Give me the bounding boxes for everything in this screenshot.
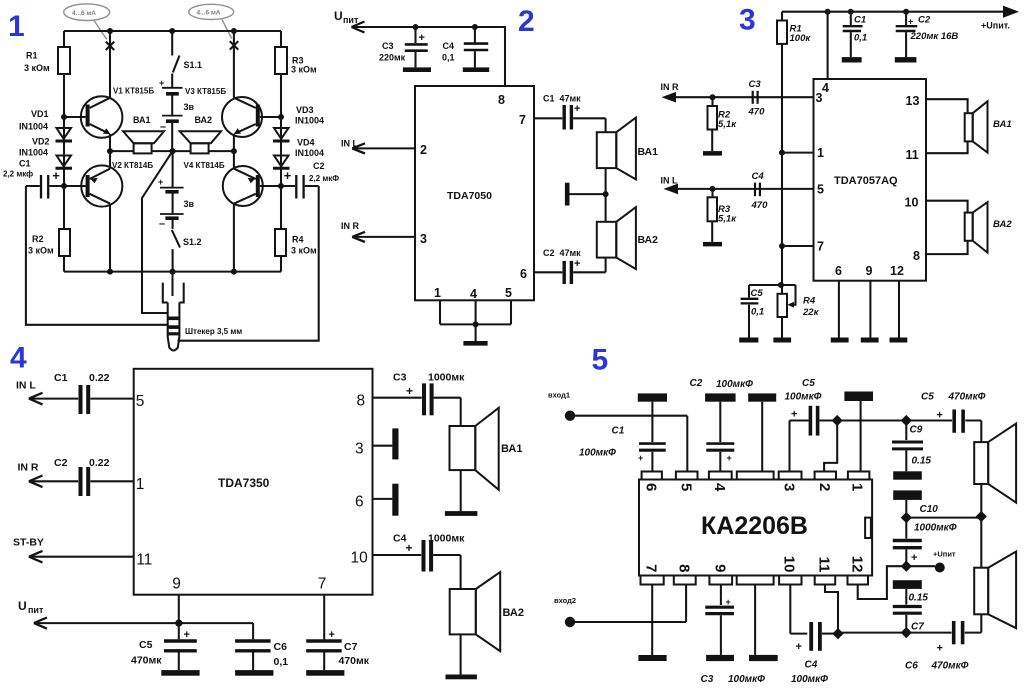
bottom pins 6 9 12 wires xyxy=(839,281,899,338)
wire from speaker node to jack ring xyxy=(142,151,173,313)
svg-text:+: + xyxy=(727,453,732,463)
svg-text:пит: пит xyxy=(28,605,44,615)
junction dots bottom rail xyxy=(107,269,237,275)
svg-text:11: 11 xyxy=(906,148,919,162)
svg-text:ST-BY: ST-BY xyxy=(13,537,44,549)
capacitor C5 0.1 xyxy=(741,285,759,338)
speaker BA2 xyxy=(965,202,988,252)
svg-text:C3: C3 xyxy=(701,674,714,685)
junction dots supply xyxy=(413,24,478,30)
svg-text:10: 10 xyxy=(781,556,798,573)
svg-text:10: 10 xyxy=(905,196,919,210)
svg-text:C2: C2 xyxy=(54,457,68,469)
svg-text:3 кОм: 3 кОм xyxy=(291,246,317,256)
C4 ground bar xyxy=(463,67,489,72)
svg-text:100мкФ: 100мкФ xyxy=(579,448,616,459)
svg-text:+: + xyxy=(158,177,163,187)
IN R junction dot xyxy=(710,94,716,100)
capacitor C8 470uF output top xyxy=(906,410,981,433)
svg-text:U: U xyxy=(334,9,343,23)
capacitor C2 100uF xyxy=(706,402,734,472)
svg-text:+: + xyxy=(184,629,190,641)
svg-text:TDA7050: TDA7050 xyxy=(447,190,492,202)
resistor R1 xyxy=(58,47,70,74)
diode VD1 xyxy=(56,128,73,141)
capacitor C5 100uF xyxy=(785,378,838,472)
svg-text:1: 1 xyxy=(136,476,145,493)
capacitor C2 2.2uF xyxy=(281,168,319,199)
top wide pin box xyxy=(737,472,774,480)
svg-text:3: 3 xyxy=(355,441,364,458)
pin 9 wire and Upit arrow xyxy=(18,595,253,629)
R4 ground bar xyxy=(773,338,791,343)
svg-text:+: + xyxy=(159,78,164,88)
pin 1 wire xyxy=(779,150,814,156)
capacitor C2 220uF 16V xyxy=(896,12,918,57)
svg-text:пит: пит xyxy=(343,15,359,25)
capacitor C9 0.15 xyxy=(892,421,923,472)
svg-text:S1.2: S1.2 xyxy=(183,237,202,247)
pin 12 box xyxy=(848,576,869,585)
svg-text:S1.1: S1.1 xyxy=(184,60,203,70)
pin 4 supply wire xyxy=(827,12,829,79)
svg-text:+: + xyxy=(638,453,643,463)
capacitor C6 470uF xyxy=(906,621,981,655)
C2 ground bar xyxy=(895,57,917,62)
svg-text:+: + xyxy=(52,168,60,183)
svg-text:C1: C1 xyxy=(54,372,68,384)
transistor V1 KT815B xyxy=(64,96,122,138)
svg-text:4...6 мА: 4...6 мА xyxy=(197,10,221,17)
transistor V3 KT815B xyxy=(222,97,281,137)
V2 emitter/collector wires xyxy=(109,151,111,272)
bottom wide pin ground xyxy=(749,585,778,662)
svg-text:13: 13 xyxy=(906,94,920,108)
capacitor C2 0.22 xyxy=(81,467,134,496)
svg-text:+: + xyxy=(908,17,913,27)
speaker BA1 xyxy=(110,131,173,153)
svg-text:C4: C4 xyxy=(752,171,765,182)
svg-text:+: + xyxy=(574,258,580,270)
supply node junction xyxy=(901,512,982,523)
capacitor C4 0.1 xyxy=(464,27,488,67)
capacitor C6 0.1 xyxy=(235,623,271,670)
svg-text:9: 9 xyxy=(172,576,181,593)
vhod2 input terminal xyxy=(554,585,686,628)
current break cross left xyxy=(106,42,114,50)
battery GB2 (two 3v cells) xyxy=(158,151,184,230)
svg-text:C2: C2 xyxy=(543,248,555,258)
current break cross right xyxy=(230,41,238,49)
C7 ground bar xyxy=(306,670,344,676)
supply ground bar xyxy=(893,490,922,517)
junction dot V3 base xyxy=(278,114,284,120)
pin 3 box xyxy=(779,472,802,480)
svg-text:вход1: вход1 xyxy=(548,391,570,400)
svg-text:R4: R4 xyxy=(292,235,304,245)
svg-text:0.22: 0.22 xyxy=(89,457,110,469)
ripple node junction xyxy=(749,282,796,288)
diode VD2 xyxy=(56,156,73,169)
svg-text:C6: C6 xyxy=(905,661,918,672)
svg-text:+: + xyxy=(796,641,802,653)
svg-text:6: 6 xyxy=(355,494,364,511)
junction dot V4 base / C2 xyxy=(278,183,284,189)
svg-text:0.22: 0.22 xyxy=(89,372,110,384)
vhod1 input terminal xyxy=(548,391,687,472)
C6 ground bar xyxy=(235,670,273,676)
pin 9 ground bar xyxy=(861,338,879,343)
pin 7 box xyxy=(641,576,664,585)
V3 collector wire xyxy=(233,31,235,151)
svg-text:3: 3 xyxy=(816,91,823,105)
svg-text:5,1к: 5,1к xyxy=(718,214,737,225)
svg-text:C1: C1 xyxy=(854,15,866,26)
svg-text:C5: C5 xyxy=(921,392,934,403)
capacitor C7 470uF xyxy=(306,595,342,670)
svg-text:+: + xyxy=(791,409,797,421)
svg-text:R2: R2 xyxy=(32,234,44,244)
C2 top ground bar xyxy=(705,393,736,401)
svg-text:5: 5 xyxy=(677,483,694,491)
svg-text:C5: C5 xyxy=(139,639,153,651)
svg-text:5: 5 xyxy=(592,344,609,377)
svg-text:V4 КТ814Б: V4 КТ814Б xyxy=(184,161,225,170)
svg-text:ВА2: ВА2 xyxy=(195,115,213,125)
resistor R4 xyxy=(275,229,286,256)
svg-text:1000мк: 1000мк xyxy=(428,533,465,545)
transistor V2 KT814B xyxy=(64,165,122,206)
svg-text:8: 8 xyxy=(357,393,366,410)
svg-text:1000мк: 1000мк xyxy=(428,372,465,384)
V4 wires xyxy=(233,151,235,272)
switch S1.2 xyxy=(172,230,180,272)
supply wire to pin 8 xyxy=(352,27,506,86)
svg-text:1: 1 xyxy=(848,483,865,491)
3.5mm jack plug xyxy=(163,283,184,351)
svg-text:4: 4 xyxy=(711,483,728,492)
R3 ground bar xyxy=(703,242,722,247)
right outer wire C2 to jack tip xyxy=(178,186,319,341)
left rail wire xyxy=(63,31,65,272)
resistor R2 xyxy=(59,229,70,256)
junction dots on top rail xyxy=(107,28,237,34)
svg-text:4: 4 xyxy=(10,342,27,375)
bottom wide pin box xyxy=(737,576,774,585)
pin 6 stub bar xyxy=(373,484,399,516)
IC TDA7057AQ xyxy=(814,79,927,281)
svg-text:+: + xyxy=(284,168,292,183)
svg-text:С2: С2 xyxy=(313,161,325,171)
pin 2 box xyxy=(815,472,836,480)
svg-text:100мкФ: 100мкФ xyxy=(785,391,822,402)
svg-text:C1: C1 xyxy=(612,426,625,437)
capacitor C3 1000uF xyxy=(373,383,461,415)
svg-text:11: 11 xyxy=(136,552,152,569)
svg-text:ВА2: ВА2 xyxy=(503,607,524,619)
battery GB1 (two 3v cells) xyxy=(159,78,183,151)
svg-text:100мкФ: 100мкФ xyxy=(791,674,828,685)
svg-text:ВА1: ВА1 xyxy=(133,115,151,125)
capacitor C10 1000uF xyxy=(893,518,922,567)
svg-text:9: 9 xyxy=(866,264,873,278)
BA2 ground bar xyxy=(446,675,477,680)
resistor R3 xyxy=(275,47,287,74)
svg-text:TDA7057AQ: TDA7057AQ xyxy=(834,175,898,187)
svg-text:ВА1: ВА1 xyxy=(501,443,522,455)
svg-text:470: 470 xyxy=(751,200,769,211)
speaker BA2 xyxy=(974,517,1016,633)
svg-text:ВА2: ВА2 xyxy=(638,234,659,246)
V1 collector wire xyxy=(109,31,111,151)
resistor R3 5.1k xyxy=(708,189,718,242)
svg-text:3 кОм: 3 кОм xyxy=(28,246,54,256)
svg-text:C3: C3 xyxy=(749,79,762,90)
svg-text:100мкФ: 100мкФ xyxy=(728,674,765,685)
svg-text:2: 2 xyxy=(420,143,427,157)
pin 3 stub bar xyxy=(373,428,399,459)
pin 11 box xyxy=(815,576,836,585)
left outer wire C1 to jack xyxy=(26,186,168,325)
svg-text:C5: C5 xyxy=(751,288,764,299)
speaker BA2 xyxy=(173,131,234,153)
svg-text:V1 КТ815Б: V1 КТ815Б xyxy=(113,87,154,96)
trimmer R4 22k xyxy=(778,285,796,338)
pin 7 ground wire xyxy=(638,585,666,662)
svg-text:8: 8 xyxy=(676,564,693,572)
output node junction xyxy=(832,415,907,426)
IN L input arrow xyxy=(16,380,78,405)
pin 9 box xyxy=(709,576,732,585)
svg-text:+Uпит: +Uпит xyxy=(933,550,956,559)
svg-text:8: 8 xyxy=(498,93,505,107)
Upit label xyxy=(334,9,359,25)
svg-text:470мк: 470мк xyxy=(131,655,162,667)
svg-text:10: 10 xyxy=(351,550,369,567)
svg-text:IN1004: IN1004 xyxy=(19,148,48,158)
svg-text:C1: C1 xyxy=(543,94,555,104)
speaker BA1 wires pins 13 11 xyxy=(926,99,968,153)
svg-text:TDA7350: TDA7350 xyxy=(218,476,270,490)
C1 ground bar xyxy=(842,57,862,62)
capacitor C1 0.1 xyxy=(843,12,863,57)
svg-text:7: 7 xyxy=(817,240,824,254)
svg-text:+: + xyxy=(406,541,413,555)
svg-text:V3 КТ815Б: V3 КТ815Б xyxy=(185,87,226,96)
pin 2 jog wire xyxy=(824,421,837,472)
svg-text:4: 4 xyxy=(470,287,477,301)
svg-text:–: – xyxy=(160,121,166,133)
resistor R1 100k xyxy=(777,12,787,285)
svg-text:220мк 16В: 220мк 16В xyxy=(910,31,959,42)
IN L junction dot xyxy=(710,186,716,192)
svg-text:C4: C4 xyxy=(443,41,455,51)
+Upit node junction xyxy=(901,561,912,572)
svg-text:+: + xyxy=(937,410,943,422)
svg-text:+: + xyxy=(726,597,731,607)
svg-text:2,2 мкФ: 2,2 мкФ xyxy=(309,174,339,183)
speaker BA2 xyxy=(450,555,501,675)
wire center column to jack xyxy=(171,272,173,296)
svg-text:VD4: VD4 xyxy=(297,138,315,148)
svg-text:+: + xyxy=(937,643,943,655)
svg-text:11: 11 xyxy=(816,557,833,573)
svg-text:IN1004: IN1004 xyxy=(295,148,324,158)
speaker line junction dots xyxy=(107,148,237,154)
svg-text:С1: С1 xyxy=(19,159,31,169)
IC TDA7350 xyxy=(134,369,373,595)
center ground T xyxy=(567,183,608,206)
svg-text:3: 3 xyxy=(420,232,427,246)
svg-text:3: 3 xyxy=(781,483,798,491)
capacitor C1 2.2uF xyxy=(26,168,64,199)
svg-text:3 кОм: 3 кОм xyxy=(291,65,317,75)
capacitor C4 1000uF xyxy=(373,540,461,572)
svg-text:5,1к: 5,1к xyxy=(718,119,737,130)
svg-text:3: 3 xyxy=(739,4,756,37)
capacitor C2 47uF xyxy=(534,258,606,284)
svg-text:470: 470 xyxy=(748,107,766,118)
svg-text:C2: C2 xyxy=(918,15,931,26)
svg-text:C3: C3 xyxy=(393,372,407,384)
current callout oval right 4...6 mA xyxy=(189,4,234,38)
svg-text:R1: R1 xyxy=(26,51,38,61)
svg-text:C6: C6 xyxy=(274,641,288,653)
C1 top ground bar xyxy=(638,393,667,401)
svg-text:+: + xyxy=(406,384,413,398)
IN R input arrow xyxy=(341,221,415,242)
pin 6 box xyxy=(642,472,662,480)
C5 ground bar xyxy=(161,670,199,676)
speaker BA1 xyxy=(597,118,636,195)
top supply rail xyxy=(782,11,1004,13)
svg-text:C4: C4 xyxy=(393,533,407,545)
svg-text:8: 8 xyxy=(913,249,920,263)
svg-text:2,2 мкф: 2,2 мкф xyxy=(3,170,33,179)
IN R input arrow xyxy=(18,462,79,488)
speaker BA1 xyxy=(974,421,1016,517)
svg-text:+: + xyxy=(911,552,917,564)
junction dot V1 base xyxy=(61,114,67,120)
svg-text:1: 1 xyxy=(817,146,824,160)
ST-BY input arrow xyxy=(13,537,134,563)
svg-text:0,1: 0,1 xyxy=(751,307,764,318)
svg-text:12: 12 xyxy=(890,264,904,278)
svg-text:12: 12 xyxy=(849,556,866,573)
svg-text:V2 КТ814Б: V2 КТ814Б xyxy=(112,161,153,170)
pin 12 ground bar xyxy=(890,338,908,343)
svg-text:7: 7 xyxy=(643,564,660,572)
svg-text:100к: 100к xyxy=(790,33,812,44)
IC KA2206B body xyxy=(639,480,872,576)
svg-text:47мк: 47мк xyxy=(560,94,582,104)
diode VD4 xyxy=(273,156,290,169)
capacitor C4 470 xyxy=(755,183,760,197)
pin 4 box xyxy=(709,472,732,480)
svg-text:вход2: вход2 xyxy=(554,596,576,605)
junction dot V2 base / C1 xyxy=(61,183,67,189)
svg-text:4: 4 xyxy=(822,81,829,95)
pin 1 box xyxy=(848,472,870,480)
svg-text:C3: C3 xyxy=(382,41,394,51)
C5 ground bar xyxy=(739,338,758,343)
svg-text:47мк: 47мк xyxy=(560,248,582,258)
svg-text:КА2206В: КА2206В xyxy=(701,512,808,540)
speaker BA1 xyxy=(965,101,988,152)
bottom ground bar xyxy=(463,341,487,346)
svg-text:C5: C5 xyxy=(802,378,815,389)
svg-text:0,1: 0,1 xyxy=(442,53,455,63)
svg-text:C2: C2 xyxy=(690,378,703,389)
svg-text:+: + xyxy=(329,629,335,641)
capacitor C4 100uF xyxy=(790,585,834,654)
IC TDA7050 xyxy=(415,86,534,300)
svg-text:R4: R4 xyxy=(803,296,816,307)
bottom pins bus xyxy=(440,300,511,341)
pin 5 box xyxy=(676,472,698,480)
ground pin top bar xyxy=(748,393,776,471)
svg-text:1: 1 xyxy=(8,10,25,43)
svg-text:U: U xyxy=(18,599,27,613)
top supply rail wire xyxy=(64,30,281,32)
svg-text:0,1: 0,1 xyxy=(274,656,289,668)
svg-text:470мкФ: 470мкФ xyxy=(931,661,969,672)
svg-text:5: 5 xyxy=(817,183,824,197)
svg-text:IN R: IN R xyxy=(18,462,39,474)
svg-text:0.15: 0.15 xyxy=(912,456,932,467)
svg-text:ВА1: ВА1 xyxy=(993,119,1012,130)
IN L input arrow xyxy=(341,139,415,154)
pin 6 ground bar xyxy=(831,338,849,343)
svg-text:ВА1: ВА1 xyxy=(638,146,659,158)
bottom rail wire xyxy=(64,271,281,273)
diode VD3 xyxy=(273,128,290,141)
capacitor C1 47uF xyxy=(534,103,606,130)
svg-text:VD3: VD3 xyxy=(296,105,314,115)
Upit arrow xyxy=(352,22,365,33)
svg-text:22к: 22к xyxy=(802,307,820,318)
pin 11 jog wire xyxy=(825,585,844,640)
capacitor C5 470uF xyxy=(164,623,197,670)
svg-text:6: 6 xyxy=(835,264,842,278)
svg-text:C9: C9 xyxy=(910,425,923,436)
svg-text:–: – xyxy=(159,218,165,230)
svg-text:C7: C7 xyxy=(344,641,358,653)
capacitor C7 0.15 xyxy=(893,607,922,633)
pin 8 box xyxy=(674,576,696,585)
svg-text:2: 2 xyxy=(816,483,833,491)
IC key notch xyxy=(865,518,871,538)
svg-text:5: 5 xyxy=(136,393,145,410)
+Upit terminal xyxy=(906,550,956,573)
svg-text:6: 6 xyxy=(520,267,527,281)
pin 7 wire xyxy=(779,243,814,249)
C9 node junction xyxy=(901,415,912,426)
svg-text:3в: 3в xyxy=(184,102,195,112)
pin 10 box xyxy=(779,576,801,585)
svg-text:+Uпит.: +Uпит. xyxy=(981,21,1010,31)
C3 ground bar xyxy=(403,67,431,72)
svg-text:+: + xyxy=(574,103,580,115)
svg-text:2: 2 xyxy=(518,5,535,38)
svg-text:IN R: IN R xyxy=(341,221,360,231)
svg-text:VD2: VD2 xyxy=(32,137,50,147)
capacitor C3 470 xyxy=(753,91,758,104)
bottom output node junction xyxy=(838,627,912,638)
IN R input arrow filled xyxy=(661,82,814,103)
BA1 ground bar xyxy=(445,511,478,516)
resistor R2 5.1k xyxy=(708,97,718,151)
